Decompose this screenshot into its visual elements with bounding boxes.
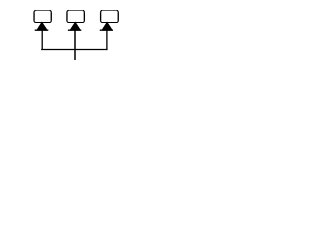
wire: vertical stub under box 1 xyxy=(41,31,43,51)
arrowhead into box 2 xyxy=(68,22,81,31)
arrowhead into box 1 xyxy=(35,22,49,31)
box 3 (top-right) xyxy=(101,11,119,23)
wire: vertical stub under box 3 xyxy=(106,31,108,51)
wire: horizontal bus line xyxy=(41,48,107,50)
box 2 (top-middle) xyxy=(67,11,84,23)
wire: vertical line under box 2 (continues below bus) xyxy=(74,31,76,61)
box 1 (top-left) xyxy=(34,11,51,23)
arrowhead into box 3 xyxy=(100,22,113,31)
